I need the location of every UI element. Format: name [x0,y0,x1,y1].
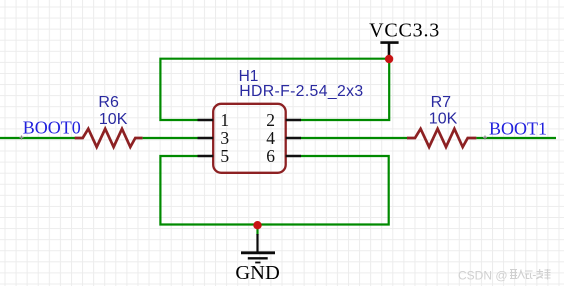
svg-text:VCC3.3: VCC3.3 [369,19,440,41]
H1 pin 3 [198,128,230,148]
svg-text:5: 5 [220,146,229,166]
ground GND [235,225,279,284]
H1 pin 5 [198,146,230,166]
svg-text:3: 3 [220,128,229,148]
svg-text:1: 1 [220,110,229,130]
resistor R6 [75,129,143,147]
H1 pin 1 [198,110,230,130]
svg-text:10K: 10K [99,111,128,128]
svg-text:10K: 10K [429,111,458,128]
svg-text:HDR-F-2.54_2x3: HDR-F-2.54_2x3 [239,83,363,100]
wire [301,137,408,139]
svg-text:BOOT1: BOOT1 [489,118,547,138]
watermark CSDN [458,269,551,283]
wire [0,137,76,139]
svg-text:R6: R6 [98,94,119,111]
junction GND node [253,221,261,229]
wire GND loop [160,156,388,225]
wire [476,137,556,139]
wire VCC loop [160,59,389,120]
wire [143,137,198,139]
junction VCC node [385,55,393,63]
H1 pin 2 [266,110,301,130]
power VCC3.3 [369,19,440,57]
svg-text:4: 4 [266,128,275,148]
svg-text:BOOT0: BOOT0 [23,118,81,138]
H1 pin 4 [266,128,301,148]
H1 pin 6 [266,146,301,166]
resistor R7 [407,129,476,147]
svg-text:GND: GND [235,262,279,284]
svg-text:6: 6 [266,146,275,166]
svg-text:R7: R7 [431,94,452,111]
svg-text:2: 2 [266,110,275,130]
svg-text:CSDN @: CSDN @ [458,269,508,283]
net label BOOT0 [20,118,81,140]
net label BOOT1 [483,118,547,139]
connector H1 body [213,104,286,173]
